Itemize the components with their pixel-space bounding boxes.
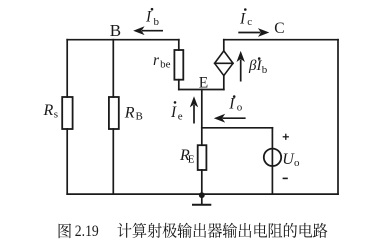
wire E to Uo horizontal [202,127,273,129]
svg-text:2.19: 2.19 [75,223,99,240]
wire Rs branch bottom [66,129,68,194]
svg-text:βI: βI [248,58,262,74]
label Ib [145,8,160,28]
svg-text:c: c [247,16,252,28]
arrow Io (left) [214,114,246,123]
wire node E horizontal [179,89,224,91]
arrow beta Ib (up) [237,51,245,82]
svg-text:I: I [170,104,177,121]
svg-text:be: be [160,59,171,71]
resistor Rs [62,97,72,129]
svg-text:B: B [110,21,121,40]
label beta Ib [248,57,268,76]
label RE [179,147,195,165]
caption text [59,223,328,239]
arrow Ib [133,26,163,35]
resistor RE [198,145,207,170]
wire diamond bottom stub [223,76,225,90]
wire top-left B wire [67,39,179,41]
junction dot [199,192,205,198]
svg-text:R: R [43,102,54,119]
wire Rs branch top [66,40,68,97]
svg-text:s: s [54,109,58,121]
svg-text:I: I [239,10,246,27]
wire RE bottom stub [201,170,203,194]
label Uo [282,151,300,169]
wire bottom [67,193,338,195]
wire Uo branch vertical [271,128,273,194]
svg-text:o: o [237,101,243,113]
wire r_be top stub [178,40,180,50]
resistor r_be [174,50,183,80]
arrow Ie (up) [190,96,198,123]
wire r_be bottom stub [178,80,180,90]
wire RB branch bottom [112,129,114,194]
controlled source diamond crossbar [215,62,233,64]
label rbe [153,52,171,71]
svg-text:e: e [178,111,183,123]
svg-text:r: r [153,52,160,69]
label Rs [43,102,59,120]
controlled source diamond outline [215,51,233,76]
wire right edge [337,40,339,194]
label Ie [170,101,183,122]
svg-text:C: C [274,20,284,37]
svg-text:E: E [188,154,195,166]
svg-text:b: b [154,16,160,28]
svg-text:B: B [136,111,143,123]
wire diamond top stub [223,40,225,51]
ground bar [193,204,210,206]
svg-text:E: E [199,75,208,92]
label Ic [239,8,252,28]
label minus [283,177,288,179]
svg-text:b: b [262,64,268,76]
wire RB branch top [112,40,114,97]
label Io [228,95,243,113]
wire E branch vertical [201,90,203,146]
label plus [283,134,289,140]
svg-text:I: I [228,96,235,113]
arrow Ic [238,28,269,37]
svg-text:R: R [124,105,135,122]
resistor RB [109,97,119,129]
svg-text:I: I [145,9,152,26]
svg-text:o: o [294,157,300,169]
wire top-right C wire [224,39,338,41]
voltage source Uo circle [264,149,281,166]
ground stub [201,194,203,204]
label RB [124,105,143,123]
